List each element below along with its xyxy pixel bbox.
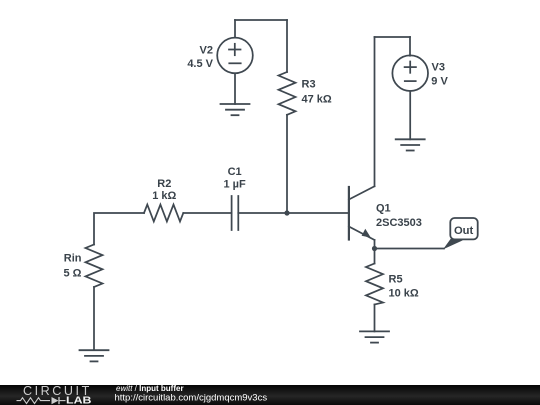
svg-text:Out: Out: [454, 225, 474, 237]
wire Rin bottom lead: [93, 287, 95, 350]
svg-text:Rin: Rin: [64, 252, 82, 264]
svg-text:5 Ω: 5 Ω: [64, 268, 82, 280]
resistor R5: [366, 264, 383, 305]
logo diode symbol: [52, 397, 59, 404]
ground under R5: [360, 331, 389, 342]
resistor Rin: [86, 245, 103, 288]
svg-text:R3: R3: [302, 79, 316, 91]
wire V3 bottom lead: [409, 91, 411, 139]
wire V2 bottom lead: [234, 73, 236, 104]
svg-text:4.5 V: 4.5 V: [187, 58, 213, 70]
wire collector vertical up: [374, 37, 376, 186]
capacitor C1: [232, 196, 239, 230]
wire emitter to node: [374, 240, 376, 249]
svg-text:1 kΩ: 1 kΩ: [152, 190, 176, 202]
voltage source V2: [217, 38, 253, 74]
wire V2 top lead: [234, 20, 236, 38]
logo resistor squiggle: [17, 398, 51, 404]
svg-text:Q1: Q1: [376, 202, 391, 214]
wire C1 to Q1 base: [238, 212, 349, 214]
voltage source V3: [392, 55, 428, 91]
resistor R2: [144, 205, 183, 222]
transistor Q1 base bar: [348, 187, 350, 240]
svg-text:V3: V3: [432, 62, 445, 74]
ground bottom left: [80, 350, 109, 361]
transistor Q1 emitter arrowhead: [362, 229, 371, 238]
wire V3 top lead: [409, 37, 411, 56]
wire top horizontal V2 to R3: [235, 19, 287, 21]
svg-text:47 kΩ: 47 kΩ: [302, 93, 332, 105]
wire top horizontal to V3: [375, 36, 411, 38]
flag Out box: [450, 218, 477, 239]
footer bar: [0, 385, 540, 405]
ground under V3: [396, 139, 425, 150]
svg-text:V2: V2: [200, 45, 213, 57]
flag Out tail: [443, 239, 463, 250]
svg-text:LAB: LAB: [66, 395, 92, 405]
svg-text:R2: R2: [157, 178, 171, 190]
svg-text:9 V: 9 V: [431, 75, 448, 87]
junction dot node at R3/main wire: [284, 210, 289, 215]
wire R5 bottom lead: [374, 305, 376, 332]
transistor Q1 emitter diagonal: [349, 227, 375, 241]
junction dot node at emitter/R5/Out: [372, 246, 377, 251]
wire main horizontal left segment (Rin corner to R2): [94, 213, 144, 245]
wire R2 to C1: [183, 212, 231, 214]
svg-text:R5: R5: [389, 274, 403, 286]
svg-text:C1: C1: [228, 166, 242, 178]
wire node to R5: [374, 249, 376, 264]
svg-text:10 kΩ: 10 kΩ: [389, 287, 419, 299]
svg-text:2SC3503: 2SC3503: [376, 217, 422, 229]
resistor R3: [279, 72, 296, 115]
svg-text:http://circuitlab.com/cjgdmqcm: http://circuitlab.com/cjgdmqcm9v3cs: [115, 393, 268, 404]
wire node to Out: [375, 248, 445, 250]
svg-text:1 µF: 1 µF: [223, 179, 246, 191]
ground under V2: [221, 104, 250, 115]
wire R3 top lead: [286, 20, 288, 72]
transistor Q1 collector diagonal: [349, 186, 375, 199]
wire R3 bottom lead: [286, 115, 288, 213]
